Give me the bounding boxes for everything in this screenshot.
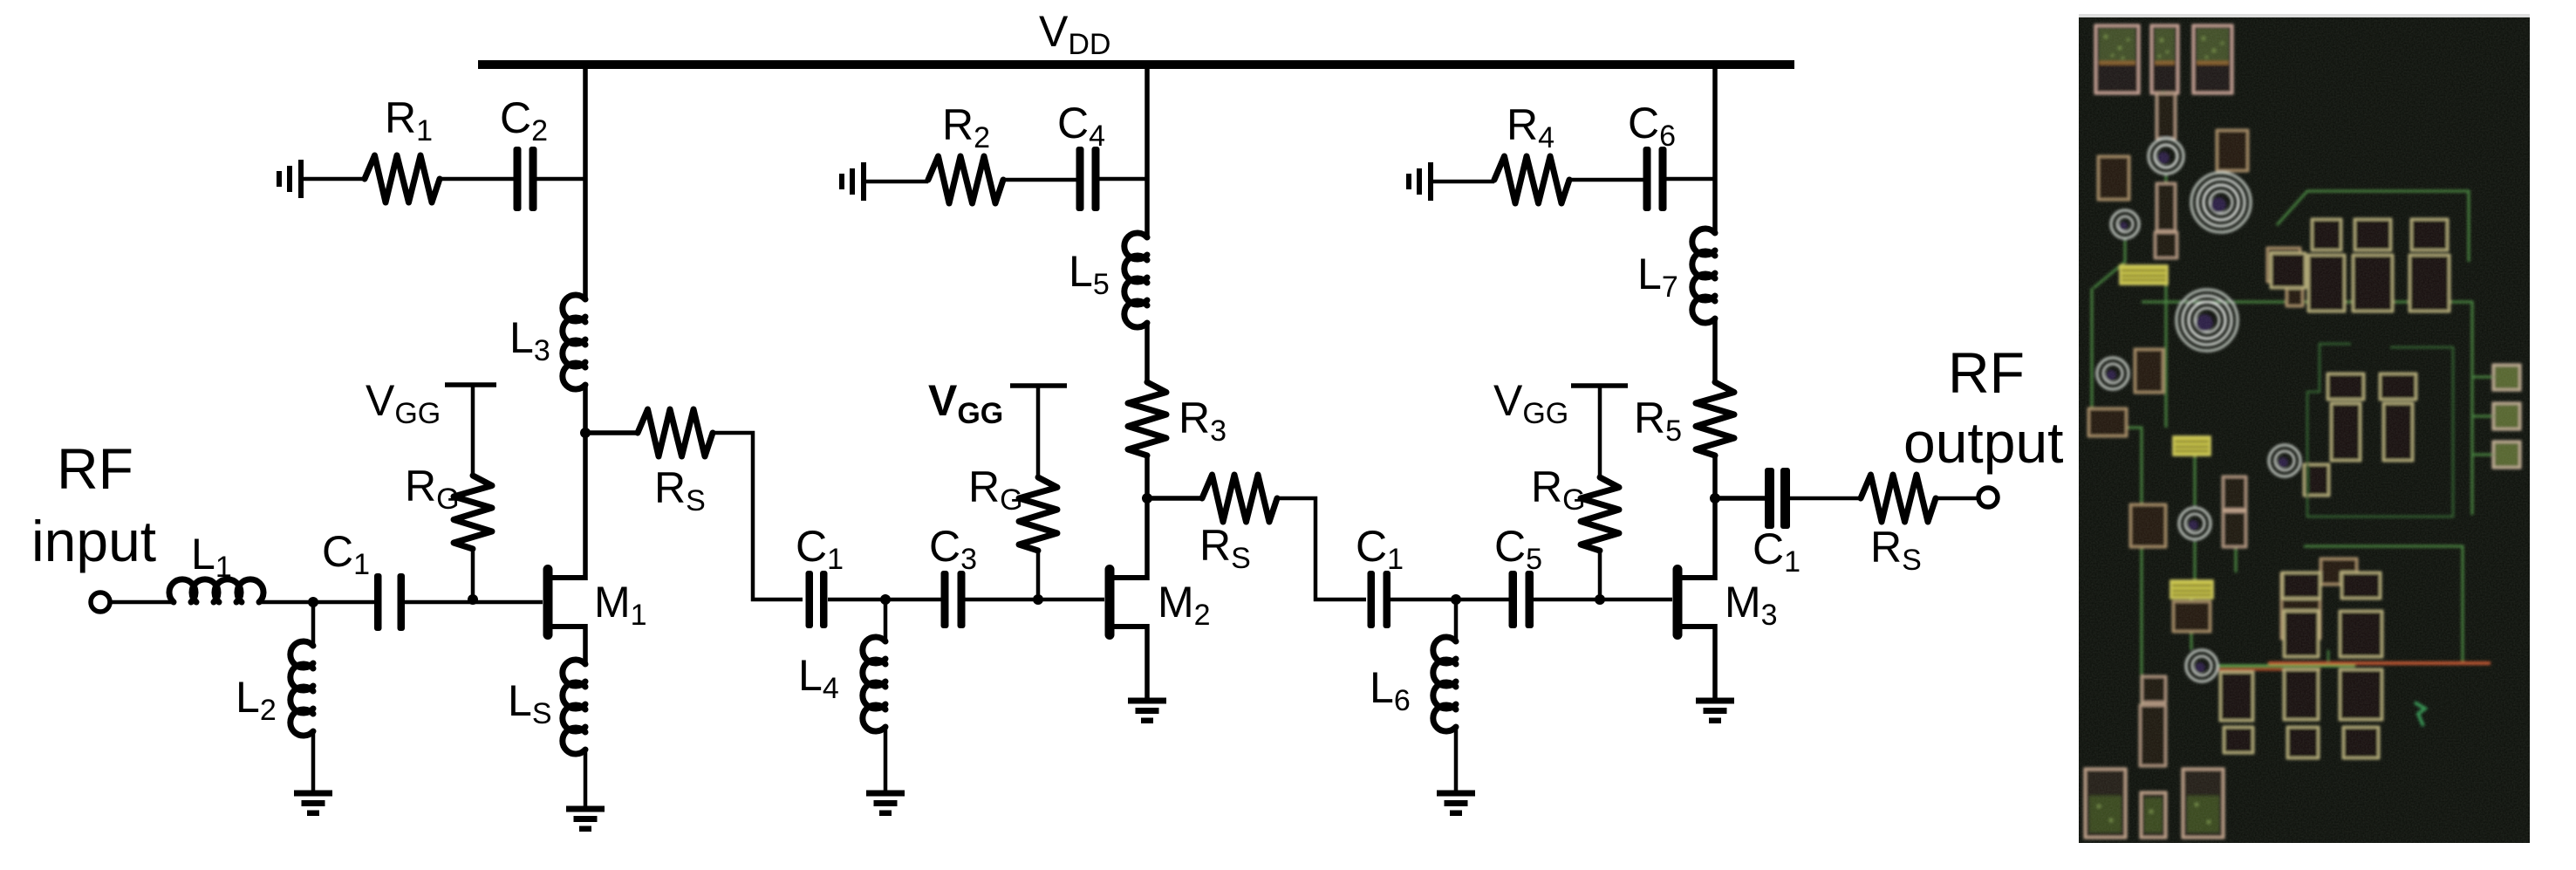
structures: vertical interconnect stacks — [2140, 93, 2246, 766]
wire RG to gate node (stage2) — [1036, 551, 1041, 599]
wire VGG to RG (stage2) — [1036, 386, 1041, 477]
wire VDD to drain node (stage1 vertical) — [583, 65, 588, 301]
svg-text:M1: M1 — [594, 578, 647, 632]
capacitor C1 (stage2) — [806, 571, 828, 628]
svg-text:L2: L2 — [236, 673, 277, 727]
S3 — [2111, 210, 2139, 238]
transistor M3 — [1673, 565, 1716, 640]
VGG supply bar (stage2) — [1010, 383, 1067, 388]
resistor RG (stage2) — [1019, 477, 1057, 551]
green cursor squiggle — [2415, 702, 2425, 726]
svg-text:RS: RS — [1870, 523, 1922, 577]
node interstage 3 — [1451, 594, 1461, 605]
svg-text:R2: R2 — [942, 100, 990, 154]
svg-text:C1: C1 — [1356, 522, 1404, 576]
wire ground to R2 — [866, 180, 928, 184]
S2 big — [2191, 173, 2251, 232]
svg-text:VGG: VGG — [366, 376, 441, 430]
wire R4 to C6 — [1569, 178, 1645, 182]
wire node to RS1 — [585, 430, 638, 435]
resistor R5 — [1696, 382, 1734, 456]
S6 — [2269, 445, 2300, 476]
ground (M3) — [1696, 698, 1734, 724]
wire L1 to junction — [259, 600, 374, 605]
ground (LS) — [566, 806, 605, 832]
inductor L1 — [169, 579, 263, 602]
svg-text:RS: RS — [1199, 521, 1251, 575]
wire C1 to RS out — [1790, 497, 1861, 501]
top bond pads — [2095, 25, 2232, 93]
wire C1 to C5 — [1390, 598, 1510, 602]
wire R2 to C4 — [1003, 178, 1078, 182]
spiral inductors — [2097, 139, 2300, 682]
right edge pads — [2493, 365, 2520, 468]
wire ground to R4 — [1433, 180, 1494, 184]
wire R1 to C2 — [440, 177, 516, 182]
transistor M2 — [1105, 565, 1148, 640]
capacitor C6 — [1643, 147, 1667, 211]
wire C6 to vertical — [1666, 177, 1715, 182]
RF input terminal — [91, 593, 110, 612]
capacitor C1 (stage1 input) — [374, 573, 405, 631]
svg-text:RG: RG — [405, 462, 460, 516]
ground (feedback R4) — [1406, 162, 1433, 201]
node gate stage3 — [1595, 594, 1605, 605]
wire input to L1 — [110, 600, 174, 605]
inductor L3 — [563, 295, 585, 389]
wire RS to output terminal — [1936, 497, 1978, 501]
svg-text:input: input — [31, 509, 156, 573]
transistor M1 — [543, 565, 586, 640]
wire LS to ground — [584, 751, 588, 809]
green routing traces — [2092, 92, 2493, 766]
capacitor banks row B — [2304, 373, 2416, 496]
svg-text:C1: C1 — [322, 527, 370, 581]
inductor LS — [563, 660, 585, 754]
ground (M2) — [1128, 698, 1166, 724]
svg-text:C1: C1 — [796, 522, 844, 576]
svg-text:R3: R3 — [1179, 394, 1227, 448]
resistor RG (stage3) — [1581, 477, 1619, 551]
S5 — [2097, 358, 2128, 389]
svg-text:C1: C1 — [1753, 524, 1800, 579]
svg-text:VDD: VDD — [1039, 7, 1110, 61]
svg-text:L7: L7 — [1637, 250, 1678, 304]
svg-text:C5: C5 — [1494, 522, 1542, 576]
inductor L5 — [1124, 233, 1147, 327]
capacitor C3 — [941, 571, 966, 628]
svg-text:RS: RS — [654, 463, 706, 517]
svg-text:M2: M2 — [1158, 578, 1211, 632]
svg-text:RF: RF — [1948, 340, 2025, 405]
capacitor C2 — [514, 147, 537, 211]
node stage1 drain junction — [580, 428, 591, 438]
wire C3 to gate M2 — [965, 598, 1104, 602]
wire VGG to RG — [471, 385, 475, 476]
VDD power rail — [478, 60, 1794, 69]
ground (L6) — [1437, 791, 1475, 817]
wire L4 to ground — [884, 729, 888, 791]
ground (feedback R1) — [277, 160, 304, 198]
svg-text:L4: L4 — [798, 651, 839, 705]
svg-text:R4: R4 — [1507, 100, 1554, 154]
wire VGG to RG (stage3) — [1598, 386, 1602, 477]
node stage3 drain junction — [1710, 493, 1720, 504]
svg-text:L1: L1 — [191, 530, 232, 584]
svg-text:L3: L3 — [509, 313, 550, 367]
wire RS2 to stage3 gate row — [1277, 498, 1366, 599]
wire C2 to vertical — [536, 177, 585, 182]
node input matching — [308, 597, 318, 607]
die background — [2079, 17, 2530, 843]
wire RG to gate node (stage3) — [1598, 551, 1602, 599]
capacitor C1 (stage3) — [1368, 571, 1391, 628]
svg-text:VGG: VGG — [1493, 376, 1568, 430]
resistor R3 — [1128, 382, 1166, 456]
svg-text:RF: RF — [57, 436, 133, 501]
inductor L7 — [1692, 229, 1715, 323]
node stage2 drain junction — [1142, 493, 1152, 504]
inductor L2 — [311, 602, 316, 646]
capacitor C4 — [1076, 147, 1100, 211]
VGG supply bar (stage1) — [445, 382, 496, 387]
capacitor C1 (output) — [1765, 468, 1790, 529]
wire source M3 to ground — [1712, 624, 1718, 699]
resistor R1 — [365, 155, 440, 202]
node gate stage1 — [468, 594, 478, 605]
RF output terminal — [1978, 488, 1998, 507]
node interstage 2 — [880, 594, 891, 605]
ground (L4) — [866, 791, 905, 817]
bottom bond pads — [2085, 769, 2224, 838]
resistor RS (stage2) — [1202, 475, 1277, 522]
wire C5 to gate M3 — [1533, 598, 1672, 602]
resistor R2 — [928, 156, 1003, 203]
svg-text:output: output — [1903, 410, 2064, 475]
wire C4 to vertical — [1099, 177, 1147, 182]
resistor RS (stage1) — [638, 409, 713, 456]
wire C1 to gate M1 — [405, 600, 543, 605]
wire RG to gate node — [471, 549, 475, 599]
wire L6 to ground — [1454, 729, 1459, 791]
svg-text:C6: C6 — [1628, 99, 1676, 153]
green loop outline mid-right — [2307, 344, 2453, 517]
svg-text:VGG: VGG — [928, 376, 1003, 430]
svg-text:L5: L5 — [1069, 247, 1110, 301]
svg-text:RG: RG — [1531, 462, 1586, 517]
svg-text:C2: C2 — [500, 93, 548, 147]
S1 — [2149, 139, 2183, 174]
wire VDD to stage3 chain — [1712, 65, 1718, 235]
tan component rects (left half) — [2088, 130, 2357, 639]
wire VDD to stage2 chain — [1145, 65, 1150, 239]
svg-text:R5: R5 — [1634, 394, 1682, 448]
wire node to RS2 — [1147, 496, 1202, 501]
node gate stage2 — [1033, 594, 1043, 605]
svg-text:L6: L6 — [1370, 663, 1411, 717]
svg-text:R1: R1 — [385, 93, 433, 147]
resistor RG (stage1) — [454, 476, 492, 549]
resistor RS (output) — [1861, 475, 1936, 522]
svg-text:C4: C4 — [1057, 99, 1105, 153]
resistor R4 — [1494, 156, 1569, 203]
svg-text:M3: M3 — [1725, 578, 1778, 632]
capacitor banks bottom right — [2220, 572, 2382, 758]
yellow finger blocks (transistors) — [2120, 265, 2213, 599]
wire source M2 to ground — [1145, 624, 1150, 699]
ground (feedback R2) — [839, 162, 866, 201]
inductor L6 — [1454, 599, 1459, 641]
wire RS1 to stage2 gate row — [713, 433, 803, 599]
svg-text:C3: C3 — [929, 522, 977, 576]
orange trace — [2268, 661, 2491, 665]
wire ground to R1 — [304, 177, 365, 182]
wire C1 to C3 — [828, 598, 941, 602]
wire L2 to ground — [311, 733, 316, 791]
S8 — [2186, 650, 2217, 682]
svg-text:LS: LS — [508, 676, 552, 730]
VGG supply bar (stage3) — [1571, 383, 1628, 388]
ground (L2) — [294, 791, 332, 817]
S4 big — [2176, 290, 2238, 351]
capacitor C5 — [1509, 571, 1534, 628]
inductor L4 — [884, 599, 888, 641]
svg-text:RG: RG — [968, 462, 1023, 517]
capacitor banks right half: row A — [2271, 219, 2450, 312]
S7 — [2179, 508, 2210, 539]
wire node to output C1 — [1715, 496, 1766, 501]
wire source M1 down to LS — [583, 624, 588, 664]
